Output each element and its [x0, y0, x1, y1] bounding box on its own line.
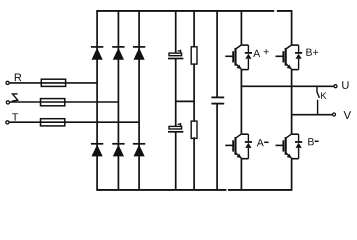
label U: [342, 81, 348, 89]
diode D2 (upper, S leg): [112, 47, 124, 60]
fuse FU1 (R): [41, 79, 65, 86]
capacitor C3 (DC link): [211, 97, 224, 103]
switch K between U and V lines: [317, 86, 320, 114]
transistor B- (IGBT with freewheel diode): [276, 134, 303, 159]
wire: rectifier leg 3 (T phase column): [138, 11, 140, 190]
wire: capacitor bank midpoint link: [176, 100, 194, 102]
terminal S (input): [6, 101, 9, 104]
resistor R2 (lower balancing): [191, 121, 197, 138]
wire: balancing resistor column: [193, 11, 195, 190]
wire: S phase line: [10, 101, 119, 103]
fuse FU3 (T): [41, 119, 65, 126]
wire: output U line (leg A midpoint): [241, 85, 333, 87]
wire: DC-link capacitor column: [216, 11, 218, 190]
diode D4 (lower, R leg): [91, 144, 103, 157]
diode D1 (upper, R leg): [91, 47, 103, 60]
label R: [15, 74, 22, 82]
terminal V (output): [333, 113, 336, 116]
wire: output V line (leg B midpoint): [292, 114, 333, 116]
label V: [344, 111, 352, 119]
label B+: [306, 49, 318, 56]
label S: [12, 94, 18, 101]
wire: negative DC bus (bottom): [96, 189, 292, 191]
wire: rectifier leg 1 (R phase column): [96, 11, 98, 190]
label A+: [253, 49, 268, 57]
diode D3 (upper, T leg): [133, 47, 145, 60]
resistor R1 (upper balancing): [191, 47, 197, 64]
label B-: [308, 138, 318, 145]
fuse FU2 (S): [41, 99, 65, 106]
label A-: [257, 139, 269, 146]
transistor A+ (IGBT with freewheel diode): [225, 45, 252, 70]
label K: [321, 92, 326, 99]
capacitor C2 (lower electrolytic) (electrolytic): [168, 123, 183, 132]
wire: T phase line: [9, 121, 139, 123]
transistor A- (IGBT with freewheel diode): [225, 134, 252, 159]
wire: inverter leg A column: [240, 11, 242, 190]
label T: [12, 113, 18, 120]
diode D6 (lower, T leg): [133, 144, 145, 157]
wire: R phase line: [10, 82, 98, 84]
terminal T (input): [6, 121, 9, 124]
wire: rectifier leg 2 (S phase column): [117, 11, 119, 190]
wire: inverter leg B column: [291, 11, 293, 190]
transistor B+ (IGBT with freewheel diode): [276, 45, 303, 70]
terminal U (output): [334, 85, 337, 88]
terminal R (input): [6, 81, 9, 84]
wire: filter capacitor column: [175, 11, 177, 190]
wire: positive DC bus (top): [96, 10, 292, 12]
capacitor C1 (upper electrolytic) (electrolytic): [168, 50, 183, 59]
diode D5 (lower, S leg): [112, 144, 124, 157]
